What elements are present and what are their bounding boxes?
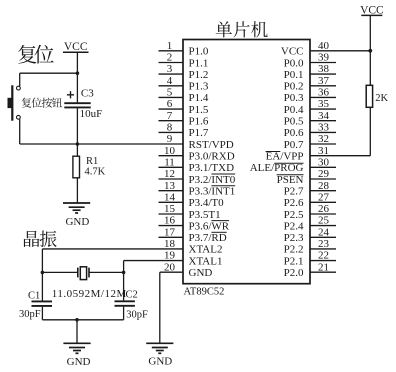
- svg-text:17: 17: [164, 226, 176, 238]
- pin 16 P3.6/WR: [159, 215, 230, 233]
- pin 19 XTAL1: [164, 250, 222, 268]
- svg-text:4.7K: 4.7K: [85, 166, 106, 177]
- svg-text:30pF: 30pF: [19, 309, 41, 320]
- svg-text:P1.3: P1.3: [189, 81, 209, 93]
- section label 复位 (reset): [18, 45, 54, 64]
- svg-text:11.0592M/12M: 11.0592M/12M: [52, 288, 127, 300]
- wire XTAL1 pin 19 to crystal: [124, 261, 183, 273]
- svg-text:GND: GND: [65, 216, 89, 228]
- svg-text:P3.6/WR: P3.6/WR: [189, 220, 230, 232]
- pin 13 P3.3/INT1: [159, 180, 236, 198]
- svg-text:P2.5: P2.5: [284, 209, 304, 221]
- pin 38 P0.1: [284, 63, 336, 81]
- pin 1 P1.0: [159, 40, 209, 58]
- svg-text:P1.5: P1.5: [189, 104, 209, 116]
- svg-text:14: 14: [164, 191, 176, 203]
- svg-text:7: 7: [167, 110, 173, 122]
- pin 17 P3.7/RD: [159, 226, 227, 244]
- svg-text:34: 34: [318, 110, 330, 122]
- svg-text:VCC: VCC: [360, 4, 384, 16]
- svg-text:P0.3: P0.3: [284, 92, 304, 104]
- pin 30 ALE/PROG: [250, 156, 336, 174]
- svg-text:24: 24: [318, 226, 330, 238]
- label 复位按钮 (reset button): [22, 98, 63, 108]
- svg-text:9: 9: [167, 133, 173, 145]
- pin 21 P2.0: [284, 261, 336, 279]
- svg-text:PSEN: PSEN: [277, 174, 304, 186]
- svg-text:6: 6: [167, 98, 173, 110]
- pin 36 P0.3: [284, 87, 336, 105]
- resistor R2 2K: [366, 85, 372, 107]
- svg-text:16: 16: [164, 215, 176, 227]
- svg-text:10uF: 10uF: [80, 108, 103, 120]
- svg-text:P0.4: P0.4: [284, 104, 304, 116]
- wire VCC down to C3: [76, 52, 78, 102]
- svg-text:P2.2: P2.2: [284, 244, 304, 256]
- pin 3 P1.2: [159, 63, 209, 81]
- pin 28 P2.7: [284, 180, 336, 198]
- svg-text:P0.2: P0.2: [284, 81, 304, 93]
- svg-text:19: 19: [164, 250, 176, 262]
- svg-text:21: 21: [318, 261, 329, 273]
- wire branch to reset button: [20, 71, 79, 86]
- svg-text:C1: C1: [28, 290, 40, 301]
- svg-text:EA/VPP: EA/VPP: [266, 151, 304, 163]
- svg-text:GND: GND: [148, 356, 172, 368]
- svg-text:P0.7: P0.7: [284, 139, 304, 151]
- pin 7 P1.6: [159, 110, 209, 128]
- svg-text:C2: C2: [126, 289, 138, 300]
- svg-text:10: 10: [164, 145, 176, 157]
- op: title 单片机 (microcontroller): [216, 21, 268, 37]
- svg-text:P1.4: P1.4: [189, 92, 209, 104]
- pin 2 P1.1: [159, 52, 209, 70]
- svg-text:11: 11: [164, 156, 175, 168]
- ground (crystal): [63, 343, 90, 368]
- svg-text:VCC: VCC: [64, 41, 88, 53]
- pin 32 P0.7: [284, 133, 336, 151]
- svg-text:P3.3/INT1: P3.3/INT1: [189, 186, 236, 198]
- svg-text:P1.7: P1.7: [189, 127, 209, 139]
- svg-text:31: 31: [318, 145, 329, 157]
- svg-text:P0.0: P0.0: [284, 57, 304, 69]
- svg-text:4: 4: [167, 75, 173, 87]
- wire RST net to pin 9: [20, 142, 183, 146]
- capacitor C1: [32, 272, 53, 319]
- svg-text:30pF: 30pF: [126, 310, 148, 321]
- svg-text:1: 1: [167, 40, 173, 52]
- svg-text:23: 23: [318, 238, 330, 250]
- svg-text:RST/VPD: RST/VPD: [189, 139, 234, 151]
- svg-text:ALE/PROG: ALE/PROG: [250, 162, 304, 174]
- pin 39 P0.0: [284, 52, 336, 70]
- svg-text:2: 2: [167, 52, 173, 64]
- svg-text:P1.0: P1.0: [189, 46, 209, 58]
- pin 18 XTAL2: [164, 238, 222, 256]
- svg-text:XTAL1: XTAL1: [189, 255, 223, 267]
- pin 40 VCC: [281, 40, 370, 58]
- pin 9 RST/VPD: [167, 133, 234, 151]
- svg-text:3: 3: [167, 63, 173, 75]
- svg-text:33: 33: [318, 122, 330, 134]
- pin 34 P0.5: [284, 110, 336, 128]
- svg-text:P2.4: P2.4: [284, 220, 304, 232]
- svg-text:XTAL2: XTAL2: [189, 244, 223, 256]
- capacitor C3: [64, 91, 90, 107]
- svg-text:25: 25: [318, 215, 330, 227]
- pin 33 P0.6: [284, 122, 336, 140]
- svg-text:P3.7/RD: P3.7/RD: [189, 232, 227, 244]
- wire crystal caps common: [42, 318, 123, 343]
- power VCC (reset): [63, 41, 89, 53]
- svg-text:GND: GND: [189, 267, 213, 279]
- svg-text:13: 13: [164, 180, 176, 192]
- svg-text:12: 12: [164, 168, 175, 180]
- pin 26 P2.5: [284, 203, 336, 221]
- pin 25 P2.4: [284, 215, 336, 233]
- svg-text:5: 5: [167, 87, 173, 99]
- crystal Y1: [41, 267, 126, 280]
- pin 27 P2.6: [284, 191, 336, 209]
- svg-text:P2.3: P2.3: [284, 232, 304, 244]
- pin 12 P3.2/INT0: [159, 168, 236, 186]
- pin 31 EA/VPP: [266, 145, 371, 163]
- svg-text:8: 8: [167, 122, 173, 134]
- svg-text:P3.0/RXD: P3.0/RXD: [189, 151, 235, 163]
- svg-text:18: 18: [164, 238, 176, 250]
- svg-text:P3.5T1: P3.5T1: [189, 209, 221, 221]
- pin 24 P2.3: [284, 226, 336, 244]
- pin 20 GND: [164, 261, 212, 279]
- svg-text:GND: GND: [67, 356, 91, 368]
- wire XTAL2 pin 18 to crystal: [42, 249, 183, 273]
- svg-text:38: 38: [318, 63, 330, 75]
- svg-text:P2.0: P2.0: [284, 267, 304, 279]
- svg-text:39: 39: [318, 52, 330, 64]
- ground (R1): [63, 203, 90, 228]
- switch S1 reset button (复位按钮): [8, 85, 21, 120]
- svg-text:P3.2/INT0: P3.2/INT0: [189, 174, 236, 186]
- pin 35 P0.4: [284, 98, 336, 116]
- svg-text:32: 32: [318, 133, 329, 145]
- svg-text:35: 35: [318, 98, 330, 110]
- pin 23 P2.2: [284, 238, 336, 256]
- svg-text:P1.1: P1.1: [189, 57, 209, 69]
- svg-text:P1.6: P1.6: [189, 116, 209, 128]
- IC U1 AT89C52 body: [183, 40, 310, 284]
- svg-text:30: 30: [318, 156, 330, 168]
- pin 15 P3.5T1: [159, 203, 221, 221]
- pin 6 P1.5: [159, 98, 209, 116]
- svg-text:28: 28: [318, 180, 330, 192]
- pin 14 P3.4/T0: [159, 191, 225, 209]
- svg-text:P0.5: P0.5: [284, 116, 304, 128]
- capacitor C2: [115, 272, 135, 319]
- svg-text:37: 37: [318, 75, 330, 87]
- svg-text:P0.6: P0.6: [284, 127, 304, 139]
- section label 晶振 (crystal osc): [24, 231, 57, 248]
- svg-text:26: 26: [318, 203, 330, 215]
- svg-text:P1.2: P1.2: [189, 69, 209, 81]
- wire VCC to 2K: [368, 15, 372, 85]
- pin 22 P2.1: [284, 250, 336, 268]
- pin 4 P1.3: [159, 75, 209, 93]
- svg-text:P3.1/TXD: P3.1/TXD: [189, 162, 235, 174]
- wire button to RST net: [19, 119, 21, 144]
- power VCC (right): [360, 4, 384, 16]
- svg-text:P2.7: P2.7: [284, 186, 304, 198]
- ground (pin 20): [146, 343, 173, 367]
- svg-text:P2.1: P2.1: [284, 255, 304, 267]
- resistor R1: [73, 144, 80, 203]
- svg-text:P2.6: P2.6: [284, 197, 304, 209]
- svg-text:36: 36: [318, 87, 330, 99]
- pin 29 PSEN: [277, 168, 336, 186]
- svg-text:P3.4/T0: P3.4/T0: [189, 197, 225, 209]
- pin 11 P3.1/TXD: [159, 156, 235, 174]
- pin 10 P3.0/RXD: [159, 145, 235, 163]
- svg-text:P0.1: P0.1: [284, 69, 304, 81]
- wire 2K to pin 31: [369, 107, 371, 156]
- svg-text:27: 27: [318, 191, 330, 203]
- pin 8 P1.7: [159, 122, 209, 140]
- svg-text:40: 40: [318, 40, 330, 52]
- svg-text:C3: C3: [81, 88, 94, 100]
- svg-text:22: 22: [318, 250, 329, 262]
- svg-text:2K: 2K: [375, 93, 388, 104]
- svg-text:29: 29: [318, 168, 330, 180]
- svg-text:AT89C52: AT89C52: [184, 286, 225, 297]
- wire C3 to RST net: [76, 108, 78, 144]
- pin 37 P0.2: [284, 75, 336, 93]
- wire GND pin 20: [160, 272, 183, 343]
- svg-text:20: 20: [164, 261, 176, 273]
- svg-text:VCC: VCC: [281, 46, 304, 58]
- svg-text:15: 15: [164, 203, 176, 215]
- pin 5 P1.4: [159, 87, 209, 105]
